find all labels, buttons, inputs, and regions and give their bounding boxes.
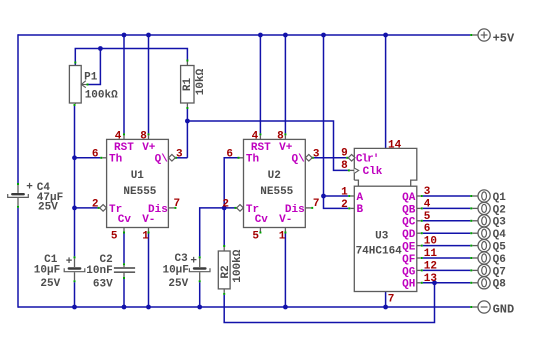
U3 pin 7 number: [388, 293, 395, 305]
node U1 pin1 GND junction: [146, 305, 151, 310]
wire U1 pin8 from rail: [148, 35, 150, 139]
wire QH feedback to R2: [224, 283, 434, 323]
capacitor C3: [162, 253, 210, 290]
wire C2 to GND: [123, 273, 125, 307]
wire +5V to U3 A/B: [324, 35, 355, 196]
svg-text:25V: 25V: [38, 201, 58, 213]
svg-text:Th: Th: [109, 153, 122, 165]
wire P1 wiper: [87, 49, 101, 85]
svg-text:5: 5: [252, 230, 259, 242]
terminal Q6: [478, 252, 490, 264]
U1 value NE555: [123, 186, 156, 198]
node U1 Tr junction: [72, 206, 77, 211]
svg-text:A: A: [357, 192, 364, 204]
node U1 pin8 rail junction: [146, 33, 151, 38]
U1 pin 7 number: [174, 198, 181, 210]
+5V label: [493, 31, 515, 45]
terminal Q2: [478, 202, 490, 214]
node U2 pin4 rail junction: [258, 33, 263, 38]
U3 output QB name: [402, 204, 416, 216]
svg-text:QF: QF: [402, 254, 415, 266]
U2 Tr pin diamond: [237, 205, 244, 212]
svg-text:6: 6: [226, 148, 233, 160]
svg-text:V+: V+: [279, 142, 293, 154]
U2 pin 5 number: [252, 230, 259, 242]
node R1 bottom junction: [185, 119, 190, 124]
U2 pin 3 number: [313, 148, 320, 160]
wire U2 pin5 stub: [259, 228, 261, 234]
node U3 pin14 rail junction: [383, 33, 388, 38]
node C2 GND junction: [122, 305, 127, 310]
svg-text:U1: U1: [131, 170, 145, 182]
node U2 pin1 GND junction: [283, 305, 288, 310]
U1 designator: [131, 170, 145, 182]
terminal Q1 label: [493, 192, 507, 204]
svg-text:QE: QE: [402, 242, 416, 254]
U1 pin 4 number: [115, 130, 122, 142]
svg-text:14: 14: [388, 139, 402, 151]
U3 value 74HC164: [356, 245, 403, 257]
node C3 GND junction: [197, 305, 202, 310]
U3 pin names upper: [356, 153, 383, 178]
svg-text:10: 10: [424, 236, 437, 248]
terminal Q6 label: [493, 254, 506, 266]
GND label: [493, 302, 515, 316]
svg-text:4: 4: [115, 130, 122, 142]
svg-text:RST: RST: [251, 142, 271, 154]
svg-text:Q6: Q6: [493, 254, 506, 266]
terminal Q8: [478, 277, 490, 289]
U2 value NE555: [260, 186, 293, 198]
wire C3 to GND: [199, 272, 201, 307]
svg-text:100kΩ: 100kΩ: [232, 249, 244, 282]
U1 pin 3 number: [176, 148, 183, 160]
svg-text:4: 4: [424, 198, 431, 210]
node QH feedback junction: [432, 280, 437, 285]
wire U3 QA to terminal Q1: [417, 195, 478, 197]
svg-text:Q7: Q7: [493, 266, 506, 278]
U1 pin 8 number: [140, 130, 147, 142]
wire U2 Th loop: [224, 158, 243, 208]
svg-text:QH: QH: [402, 279, 415, 291]
svg-text:1: 1: [279, 230, 286, 242]
U2 pin 2 number: [222, 198, 229, 210]
timer U1 (NE555) body: [107, 139, 169, 227]
svg-text:V-: V-: [142, 214, 155, 226]
U3 output QE name: [402, 242, 416, 254]
U3 output QD name: [402, 229, 416, 241]
svg-text:P1: P1: [84, 71, 98, 83]
U1 Q pin diamond: [169, 155, 176, 162]
svg-text:NE555: NE555: [260, 186, 293, 198]
svg-text:+: +: [66, 256, 73, 268]
wire U2 pin4 from rail: [259, 35, 261, 139]
wire U1 Q to R1 node: [175, 121, 187, 158]
svg-text:7: 7: [313, 198, 320, 210]
svg-text:QA: QA: [402, 192, 416, 204]
U1 pin 1 number: [142, 230, 149, 242]
svg-text:U2: U2: [268, 170, 281, 182]
svg-text:8: 8: [140, 130, 147, 142]
svg-text:10nF: 10nF: [86, 265, 112, 277]
terminal Q3 label: [493, 217, 507, 229]
U3 input B name: [357, 204, 364, 216]
wire left rail (+5V to C4): [17, 34, 19, 193]
svg-text:Q\: Q\: [155, 153, 169, 165]
svg-text:9: 9: [341, 147, 348, 159]
svg-text:5: 5: [424, 211, 431, 223]
wire U2 pin1 to GND: [284, 228, 286, 308]
wire C1 to GND: [74, 272, 76, 307]
svg-text:Clk: Clk: [363, 166, 383, 178]
U2 Q pin diamond: [305, 155, 312, 162]
svg-text:13: 13: [424, 273, 438, 285]
svg-text:11: 11: [424, 248, 438, 260]
wire C3 to U2 Tr: [200, 208, 237, 267]
timer U2 (NE555) body: [244, 139, 306, 227]
wire U3 QC to terminal Q3: [417, 220, 478, 222]
terminal Q2 label: [493, 204, 506, 216]
U3 pin 5 number: [424, 211, 431, 223]
wire R2 top: [223, 208, 225, 251]
terminal Q3: [478, 215, 490, 227]
U3 pin 12 number: [424, 260, 437, 272]
svg-text:6: 6: [424, 223, 431, 235]
svg-text:C2: C2: [99, 254, 112, 266]
svg-text:3: 3: [313, 148, 320, 160]
wire U3 QG to terminal Q7: [417, 269, 478, 271]
wire C4 to GND rail: [17, 198, 19, 308]
svg-text:Q8: Q8: [493, 279, 507, 291]
wire P1 bottom / C1 column: [74, 103, 77, 267]
node U2 pin8 rail junction: [283, 33, 288, 38]
svg-text:1: 1: [142, 230, 149, 242]
svg-text:R2: R2: [220, 265, 232, 278]
svg-text:4: 4: [252, 130, 259, 142]
svg-text:2: 2: [92, 198, 99, 210]
svg-text:QC: QC: [402, 217, 416, 229]
U3 pin 13 number: [424, 273, 438, 285]
wire U1 pin4 from rail: [123, 35, 125, 139]
U3 output QG name: [402, 266, 416, 278]
terminal Q7: [478, 264, 490, 276]
terminal Q4 label: [493, 229, 507, 241]
wire U3 QB to terminal Q2: [417, 207, 478, 209]
wire U2 pin8 from rail: [284, 35, 286, 139]
capacitor C4: [8, 181, 64, 213]
wire R1 bottom: [186, 103, 188, 121]
U2 pin 7 stub: [305, 207, 313, 209]
wire R1 node to U3 Clk: [187, 121, 354, 170]
svg-text:8: 8: [277, 130, 284, 142]
node U2 Tr junction: [222, 206, 227, 211]
resistor R2: [218, 249, 244, 289]
svg-text:QG: QG: [402, 266, 416, 278]
svg-text:5: 5: [111, 230, 118, 242]
node C1 GND junction: [72, 305, 77, 310]
svg-text:63V: 63V: [93, 279, 113, 291]
svg-text:Th: Th: [246, 153, 259, 165]
wire P1 top to R1 top: [75, 49, 187, 66]
U3 designator: [375, 231, 389, 243]
U3 pin 11 number: [424, 248, 438, 260]
U3 clock pin wedge: [354, 168, 358, 173]
wire U3 QH to terminal Q8: [417, 282, 478, 284]
svg-text:1: 1: [341, 187, 348, 199]
terminal Q5: [478, 240, 490, 252]
svg-text:12: 12: [424, 260, 437, 272]
node U3 A/B junction: [321, 194, 326, 199]
wire U2 Q to U3 Clr: [312, 157, 348, 159]
node P1 wiper junction: [98, 46, 103, 51]
svg-text:U3: U3: [375, 231, 389, 243]
GND power symbol: [478, 301, 490, 313]
potentiometer P1: [69, 66, 118, 104]
svg-text:7: 7: [388, 293, 395, 305]
U2 pin 8 number: [277, 130, 284, 142]
U2 pin 7 number: [313, 198, 320, 210]
svg-text:Cv: Cv: [118, 214, 132, 226]
svg-text:3: 3: [424, 186, 431, 198]
svg-text:+5V: +5V: [493, 31, 515, 45]
svg-text:Q3: Q3: [493, 217, 507, 229]
svg-text:Q\: Q\: [292, 153, 306, 165]
svg-text:6: 6: [92, 148, 99, 160]
wire U3 QF to terminal Q6: [417, 257, 478, 259]
capacitor C2: [86, 254, 135, 291]
svg-text:100kΩ: 100kΩ: [85, 90, 118, 102]
svg-text:Q5: Q5: [493, 242, 507, 254]
U2 pin 4 number: [252, 130, 259, 142]
wire U3 QD to terminal Q4: [417, 232, 478, 234]
U3 pin 1 number: [341, 187, 348, 199]
U2 designator: [268, 170, 281, 182]
+5V power symbol: [478, 29, 490, 41]
svg-text:Q4: Q4: [493, 229, 507, 241]
terminal Q1: [478, 190, 490, 202]
node U1 Th junction: [72, 155, 77, 160]
svg-text:8: 8: [341, 160, 348, 172]
U2 pin 1 number: [279, 230, 286, 242]
U3 pin 3 number: [424, 186, 431, 198]
svg-text:RST: RST: [114, 142, 134, 154]
svg-text:25V: 25V: [168, 278, 188, 290]
node U3 A/B rail junction: [321, 33, 326, 38]
wire U1 Tr: [75, 207, 100, 209]
U3 output QH name: [402, 279, 415, 291]
svg-text:GND: GND: [493, 302, 515, 316]
svg-text:25V: 25V: [40, 278, 60, 290]
wire U3 pin14 from rail: [385, 35, 387, 148]
U3 output QA name: [402, 192, 416, 204]
U3 pin 4 number: [424, 198, 431, 210]
wire R2 bottom to feedback: [223, 289, 225, 323]
svg-text:QB: QB: [402, 204, 416, 216]
U1 pin 6 number: [92, 148, 99, 160]
svg-text:C3: C3: [174, 253, 188, 265]
U3 output QF name: [402, 254, 415, 266]
wire U1 Th: [75, 157, 107, 159]
svg-text:R1: R1: [182, 78, 194, 92]
node U1 pin4 rail junction: [122, 33, 127, 38]
wire U3 B link: [324, 196, 355, 208]
U1 pin names: [109, 142, 168, 226]
wire U1 pin1 to GND: [148, 228, 150, 308]
svg-text:10µF: 10µF: [34, 265, 60, 277]
U3 pin 14 number: [388, 139, 402, 151]
shift register U3 (74HC164) body: [354, 148, 417, 291]
svg-text:+: +: [26, 181, 33, 193]
U3 pin 2 number: [341, 199, 348, 211]
U1 pin 7 stub: [168, 207, 176, 209]
svg-text:Q1: Q1: [493, 192, 507, 204]
svg-text:B: B: [357, 204, 364, 216]
svg-text:10kΩ: 10kΩ: [195, 68, 207, 95]
wire U3 pin7 to GND: [385, 292, 387, 308]
terminal Q4: [478, 227, 490, 239]
capacitor C1: [34, 254, 85, 290]
node U3 pin7 GND junction: [383, 305, 388, 310]
wire U3 QE to terminal Q5: [417, 245, 478, 247]
U1 Tr pin diamond: [100, 205, 107, 212]
svg-text:Clr': Clr': [356, 153, 378, 165]
svg-text:10µF: 10µF: [162, 265, 188, 277]
U3 pin 9 number: [341, 147, 348, 159]
resistor R1: [181, 66, 207, 104]
wire U1 pin5 to C2: [123, 228, 125, 268]
U3 Clr pin diamond: [348, 155, 355, 162]
U3 input A name: [357, 192, 364, 204]
U3 output QC name: [402, 217, 416, 229]
wire +5V rail: [18, 34, 478, 36]
U3 pin 8 number: [341, 160, 348, 172]
svg-text:2: 2: [222, 198, 229, 210]
svg-text:3: 3: [176, 148, 183, 160]
svg-text:Cv: Cv: [255, 214, 269, 226]
svg-text:V-: V-: [279, 214, 292, 226]
U2 pin names: [246, 142, 305, 226]
svg-text:Q2: Q2: [493, 204, 506, 216]
terminal Q5 label: [493, 242, 507, 254]
svg-text:NE555: NE555: [123, 186, 156, 198]
U3 pin 6 number: [424, 223, 431, 235]
terminal Q8 label: [493, 279, 507, 291]
terminal Q7 label: [493, 266, 506, 278]
svg-text:V+: V+: [142, 142, 156, 154]
svg-text:74HC164: 74HC164: [356, 245, 403, 257]
wire GND rail: [18, 306, 478, 308]
U1 pin 5 number: [111, 230, 118, 242]
U1 pin 2 number: [92, 198, 99, 210]
svg-text:+: +: [190, 256, 197, 268]
U2 pin 6 number: [226, 148, 233, 160]
svg-text:QD: QD: [402, 229, 416, 241]
svg-text:2: 2: [341, 199, 348, 211]
U3 pin 10 number: [424, 236, 437, 248]
